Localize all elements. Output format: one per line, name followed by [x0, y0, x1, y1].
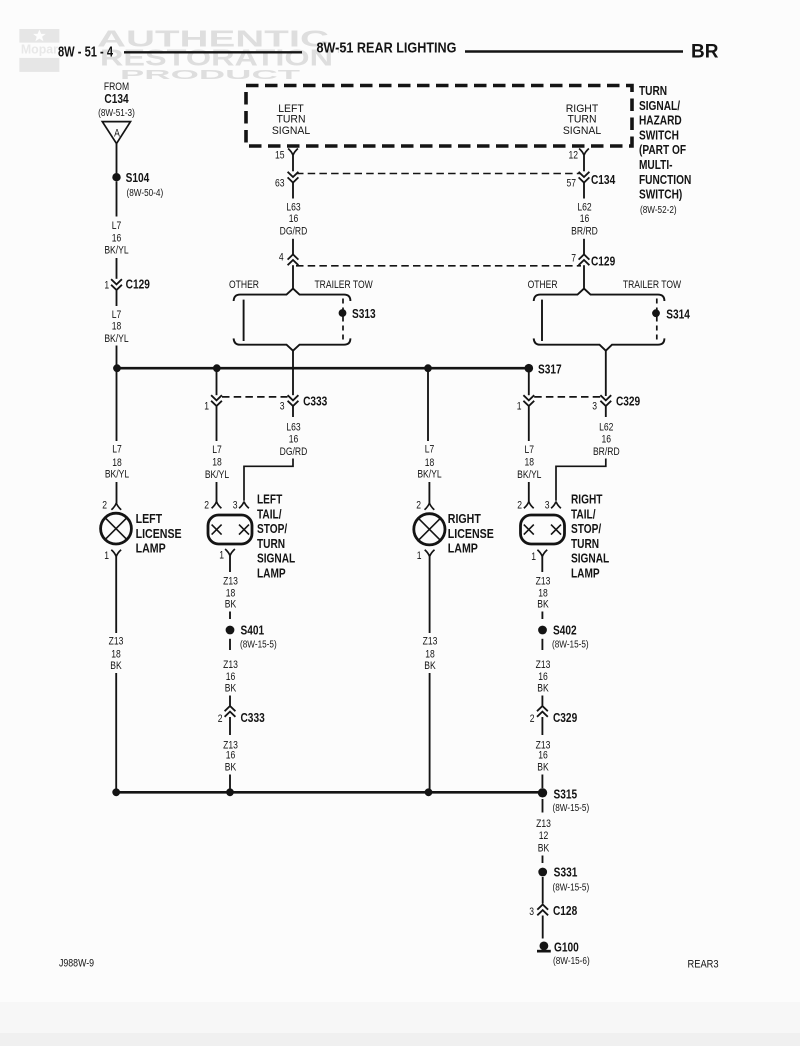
- svg-text:RESTORATION: RESTORATION: [100, 45, 333, 71]
- svg-text:REAR3: REAR3: [687, 959, 718, 971]
- right split TRAILER TOW branch (dashed): [656, 299, 658, 342]
- svg-text:C329: C329: [553, 711, 578, 725]
- svg-text:BK: BK: [225, 599, 237, 611]
- connector C134 right half (pin 57): [579, 172, 590, 183]
- svg-text:16: 16: [602, 434, 612, 446]
- wire left split to bus: [292, 351, 294, 369]
- svg-text:FUNCTION: FUNCTION: [639, 173, 691, 187]
- svg-text:12: 12: [539, 830, 549, 842]
- svg-text:16: 16: [289, 434, 299, 446]
- svg-text:L7: L7: [525, 444, 535, 456]
- svg-text:BK: BK: [424, 660, 436, 672]
- svg-text:1: 1: [517, 401, 522, 413]
- wire to right lamp pin 2: [528, 482, 530, 502]
- left split bottom brace: [234, 338, 351, 350]
- svg-text:(8W-15-5): (8W-15-5): [552, 801, 589, 813]
- svg-text:C128: C128: [553, 904, 578, 918]
- splice S313: [339, 309, 347, 317]
- junction right license ground: [425, 788, 433, 796]
- svg-text:LICENSE: LICENSE: [448, 527, 494, 541]
- splice S315: [538, 788, 547, 797]
- splice S331: [538, 868, 547, 877]
- wire right license from bus: [427, 368, 429, 441]
- svg-text:BR: BR: [691, 42, 719, 63]
- wire lamp pin1 down: [229, 556, 231, 572]
- svg-text:TURN: TURN: [257, 537, 285, 551]
- svg-text:C129: C129: [126, 278, 151, 292]
- wire to lower bus left end: [115, 673, 117, 792]
- wire to lower bus: [229, 775, 231, 793]
- svg-text:(8W-51-3): (8W-51-3): [98, 106, 135, 118]
- svg-text:Z13: Z13: [536, 576, 551, 588]
- svg-text:C134: C134: [104, 92, 129, 106]
- svg-text:PRODUCT: PRODUCT: [120, 68, 301, 82]
- svg-text:3: 3: [280, 401, 285, 413]
- svg-text:RIGHT: RIGHT: [448, 512, 481, 526]
- svg-text:BR/RD: BR/RD: [571, 226, 598, 238]
- svg-text:L7: L7: [112, 220, 122, 232]
- svg-text:Z13: Z13: [536, 659, 551, 671]
- svg-text:(8W-52-2): (8W-52-2): [640, 203, 677, 215]
- wire through bus to C333 pin 3: [292, 368, 294, 395]
- svg-text:16: 16: [538, 671, 548, 683]
- svg-text:2: 2: [102, 500, 107, 512]
- off-page arrow A (triangle): [102, 122, 130, 144]
- svg-text:18: 18: [112, 457, 122, 469]
- svg-text:J988W-9: J988W-9: [59, 958, 94, 970]
- svg-text:S314: S314: [666, 308, 690, 322]
- svg-text:12: 12: [568, 150, 578, 162]
- wire S331 to C128: [542, 877, 544, 904]
- wire below C134: [292, 183, 294, 199]
- svg-text:SIGNAL: SIGNAL: [272, 125, 310, 137]
- svg-text:1: 1: [219, 550, 224, 562]
- svg-text:S313: S313: [352, 307, 376, 321]
- svg-text:TRAILER TOW: TRAILER TOW: [314, 279, 373, 291]
- svg-text:L62: L62: [599, 422, 613, 434]
- junction left license tap: [113, 364, 121, 372]
- wire S317 down to C329 pin 1: [528, 372, 530, 395]
- svg-text:LAMP: LAMP: [448, 542, 478, 556]
- svg-text:S331: S331: [554, 865, 578, 879]
- svg-text:Z13: Z13: [536, 818, 551, 830]
- dashed connector line C129: [296, 265, 581, 267]
- splice S401: [226, 626, 235, 635]
- wire S104 down: [116, 181, 118, 216]
- svg-text:18: 18: [425, 457, 435, 469]
- svg-text:(8W-15-5): (8W-15-5): [240, 637, 277, 649]
- wire to C333 pin 2: [229, 696, 231, 706]
- svg-text:3: 3: [592, 401, 597, 413]
- svg-text:SIGNAL/: SIGNAL/: [639, 99, 681, 113]
- svg-text:16: 16: [226, 671, 236, 683]
- lower bus wire: [116, 791, 542, 794]
- svg-text:1: 1: [204, 401, 209, 413]
- wire pin15 to C134: [292, 155, 294, 171]
- svg-text:OTHER: OTHER: [528, 279, 558, 291]
- svg-text:8W-51 REAR LIGHTING: 8W-51 REAR LIGHTING: [317, 40, 457, 57]
- wire below C134 right: [583, 183, 585, 199]
- svg-text:TRAILER TOW: TRAILER TOW: [623, 279, 682, 291]
- svg-text:16: 16: [580, 213, 590, 225]
- wire to lamp pin 2: [216, 482, 218, 502]
- svg-text:18: 18: [525, 457, 535, 469]
- wire C333 pin1 down: [216, 406, 218, 441]
- svg-text:Z13: Z13: [223, 576, 238, 588]
- wire pin12 to C134: [583, 155, 585, 171]
- junction left license ground: [112, 788, 120, 796]
- wire to C129 pin 4: [292, 239, 294, 255]
- wire C129 to left split: [292, 265, 294, 289]
- wire right license pin1 down: [429, 557, 431, 634]
- svg-text:BK/YL: BK/YL: [417, 469, 442, 481]
- left tail/stop/turn signal lamp: [208, 515, 252, 544]
- wire stub to S331: [542, 856, 544, 864]
- wire license pin1 down: [115, 557, 117, 634]
- svg-text:Z13: Z13: [109, 636, 124, 648]
- svg-text:OTHER: OTHER: [229, 279, 259, 291]
- svg-text:18: 18: [212, 457, 222, 469]
- wire below S315: [542, 799, 544, 813]
- svg-text:L7: L7: [112, 309, 122, 321]
- right split OTHER branch: [541, 300, 543, 341]
- wire stub below S401: [229, 639, 231, 650]
- wire to upper bus: [116, 346, 118, 369]
- svg-text:BR/RD: BR/RD: [593, 446, 620, 458]
- junction right license tap: [424, 364, 432, 372]
- svg-text:16: 16: [112, 233, 122, 245]
- wire right split to C329 pin 3: [605, 351, 607, 396]
- wire below C333 pin 2: [229, 717, 231, 735]
- svg-text:16: 16: [538, 750, 548, 762]
- dashed connector line C329: [534, 396, 600, 398]
- svg-text:8W - 51 - 4: 8W - 51 - 4: [58, 44, 113, 61]
- svg-text:BK: BK: [537, 761, 549, 773]
- svg-text:S401: S401: [240, 623, 264, 637]
- svg-text:S317: S317: [538, 362, 562, 376]
- svg-text:DG/RD: DG/RD: [280, 226, 308, 238]
- svg-text:LEFT: LEFT: [136, 512, 163, 526]
- svg-text:C129: C129: [591, 254, 616, 268]
- svg-text:1: 1: [104, 280, 109, 292]
- svg-text:2: 2: [416, 500, 421, 512]
- connector C333 pin 1: [216, 372, 218, 395]
- svg-text:18: 18: [425, 648, 435, 660]
- wire below C333 pin 3: [292, 406, 294, 417]
- svg-text:SWITCH: SWITCH: [639, 128, 679, 142]
- connector C129 pin 7: [579, 254, 590, 265]
- svg-text:(8W-15-5): (8W-15-5): [552, 880, 589, 892]
- svg-text:3: 3: [233, 500, 238, 512]
- wire right lamp pin1 down: [541, 557, 543, 573]
- svg-text:STOP/: STOP/: [571, 522, 602, 536]
- wire stub to S401: [229, 612, 231, 620]
- svg-text:LAMP: LAMP: [571, 566, 600, 580]
- svg-text:S315: S315: [554, 787, 578, 801]
- svg-text:BK/YL: BK/YL: [105, 469, 130, 481]
- wire to lower bus: [429, 673, 431, 792]
- svg-text:RIGHT: RIGHT: [571, 492, 603, 506]
- svg-text:BK: BK: [110, 660, 122, 672]
- left license lamp: [101, 513, 132, 544]
- wire to C329 pin 2: [541, 696, 543, 706]
- dashed connector line C134: [296, 173, 581, 175]
- svg-text:(8W-15-6): (8W-15-6): [553, 954, 590, 966]
- svg-text:(8W-15-5): (8W-15-5): [552, 637, 589, 649]
- left split OTHER branch: [243, 300, 245, 341]
- ground G100: [540, 942, 549, 951]
- svg-text:L63: L63: [286, 422, 301, 434]
- upper bus wire: [117, 367, 529, 370]
- svg-text:C333: C333: [303, 394, 328, 408]
- svg-text:16: 16: [226, 750, 236, 762]
- svg-text:G100: G100: [554, 940, 579, 954]
- svg-text:MULTI-: MULTI-: [639, 158, 673, 172]
- svg-text:16: 16: [289, 213, 299, 225]
- svg-text:SIGNAL: SIGNAL: [563, 125, 601, 137]
- svg-text:1: 1: [417, 550, 422, 562]
- svg-text:TURN: TURN: [639, 84, 667, 98]
- svg-text:BK/YL: BK/YL: [517, 469, 542, 481]
- svg-text:7: 7: [571, 253, 576, 265]
- svg-text:TAIL/: TAIL/: [571, 507, 596, 521]
- wire stub below S402: [541, 639, 543, 650]
- wire C128 to ground G100: [542, 916, 544, 939]
- svg-text:BK: BK: [538, 843, 550, 855]
- svg-text:(PART OF: (PART OF: [639, 143, 686, 157]
- right split bottom brace: [534, 338, 665, 350]
- junction left tail tap: [213, 364, 221, 372]
- svg-text:BK: BK: [537, 683, 549, 695]
- right tail/stop/turn signal lamp: [521, 515, 565, 544]
- svg-text:Z13: Z13: [423, 636, 438, 648]
- svg-text:2: 2: [218, 713, 223, 725]
- turn signal / hazard switch dashed box: [246, 86, 632, 147]
- right split top brace: [534, 289, 665, 301]
- splice S402: [538, 626, 547, 635]
- svg-text:57: 57: [566, 178, 576, 190]
- watermark: Mopar logo block: [19, 29, 59, 72]
- splice S314: [652, 309, 660, 317]
- wire to license pin 2: [116, 482, 118, 503]
- wire below C329 pin 3: [605, 406, 607, 417]
- watermark: AUTHENTIC RESTORATION PRODUCT: [97, 26, 348, 83]
- junction left tail ground: [226, 788, 234, 796]
- splice S104: [112, 173, 120, 181]
- svg-text:BK: BK: [225, 761, 237, 773]
- svg-text:HAZARD: HAZARD: [639, 113, 682, 127]
- wire A to S104: [116, 144, 118, 174]
- svg-text:3: 3: [529, 906, 534, 918]
- svg-text:C333: C333: [240, 711, 265, 725]
- svg-text:1: 1: [104, 550, 109, 562]
- svg-text:BK/YL: BK/YL: [104, 244, 129, 256]
- dashed connector line C333: [222, 396, 288, 398]
- wire to S315: [541, 775, 543, 789]
- left split top brace: [234, 289, 351, 301]
- wire to C129 pin 1: [116, 258, 118, 279]
- right license lamp: [414, 514, 445, 545]
- svg-text:S402: S402: [553, 623, 577, 637]
- wire to C129 pin 7: [583, 239, 585, 255]
- wire below C129: [116, 290, 118, 306]
- wire stub to S402: [541, 612, 543, 620]
- svg-text:15: 15: [275, 150, 285, 162]
- svg-text:BK/YL: BK/YL: [104, 333, 129, 345]
- svg-text:LAMP: LAMP: [257, 566, 286, 580]
- svg-text:A: A: [114, 128, 120, 140]
- svg-text:LEFT: LEFT: [257, 492, 282, 506]
- wire to license pin 2: [428, 482, 430, 503]
- svg-text:L7: L7: [112, 444, 122, 456]
- svg-text:C134: C134: [591, 173, 616, 187]
- svg-text:SIGNAL: SIGNAL: [257, 552, 295, 566]
- svg-text:L7: L7: [212, 444, 222, 456]
- splice S317: [525, 364, 534, 373]
- svg-text:BK/YL: BK/YL: [205, 469, 230, 481]
- wire below C329 pin 2: [541, 717, 543, 735]
- svg-text:63: 63: [275, 178, 285, 190]
- svg-text:2: 2: [204, 500, 209, 512]
- svg-text:Z13: Z13: [223, 659, 238, 671]
- svg-text:S104: S104: [126, 171, 150, 185]
- svg-text:4: 4: [279, 252, 284, 264]
- svg-text:3: 3: [545, 500, 550, 512]
- svg-text:BK: BK: [225, 683, 237, 695]
- header rule right: [465, 50, 683, 52]
- svg-text:2: 2: [517, 500, 522, 512]
- svg-text:SWITCH): SWITCH): [639, 187, 682, 201]
- header rule left: [124, 51, 302, 53]
- svg-text:BK: BK: [537, 599, 549, 611]
- wire jog to right lamp pin 3: [556, 459, 606, 501]
- svg-text:18: 18: [111, 648, 121, 660]
- svg-text:TAIL/: TAIL/: [257, 507, 282, 521]
- svg-text:1: 1: [531, 551, 536, 563]
- left split TRAILER TOW branch (dashed): [342, 299, 344, 342]
- svg-text:SIGNAL: SIGNAL: [571, 552, 609, 566]
- svg-text:Mopar: Mopar: [21, 43, 58, 57]
- svg-text:L7: L7: [425, 444, 435, 456]
- svg-text:LICENSE: LICENSE: [136, 527, 182, 541]
- svg-text:18: 18: [112, 321, 122, 333]
- svg-text:C329: C329: [616, 394, 641, 408]
- wire left license from bus: [116, 368, 118, 441]
- svg-text:STOP/: STOP/: [257, 522, 288, 536]
- wire jog to lamp pin 3: [244, 459, 293, 501]
- wire C329 pin1 down: [528, 406, 530, 441]
- svg-text:2: 2: [530, 713, 535, 725]
- svg-text:(8W-50-4): (8W-50-4): [127, 186, 164, 198]
- svg-text:LAMP: LAMP: [136, 542, 166, 556]
- svg-text:TURN: TURN: [571, 537, 599, 551]
- svg-text:DG/RD: DG/RD: [280, 446, 308, 458]
- wire C129 to right split: [583, 265, 585, 289]
